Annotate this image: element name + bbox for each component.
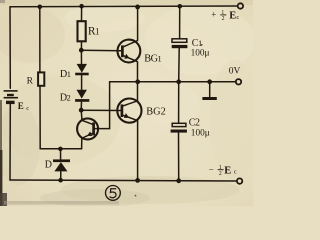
svg-text:E: E <box>229 11 236 22</box>
svg-text:−: − <box>209 164 214 174</box>
wire: 0V line <box>110 81 236 83</box>
svg-text:100μ: 100μ <box>191 129 210 139</box>
svg-text:D: D <box>45 159 52 170</box>
wire: C2 bottom lead <box>178 133 180 181</box>
svg-text:E: E <box>224 165 231 176</box>
svg-text:BG2: BG2 <box>146 106 165 117</box>
label -1/2Ec <box>209 164 237 176</box>
wire: D bottom lead <box>60 171 62 180</box>
transistor BG2 <box>117 99 141 123</box>
svg-text:D2: D2 <box>60 92 71 103</box>
resistor R1 <box>78 21 86 41</box>
battery Ec plates <box>4 91 18 103</box>
svg-text:+: + <box>211 9 216 19</box>
svg-text:c: c <box>236 14 239 21</box>
wire: R1 bottom lead <box>80 41 82 50</box>
figure number 5 (circled) <box>106 186 121 201</box>
wire: C2 top lead <box>178 82 180 124</box>
svg-text:R: R <box>27 77 34 87</box>
wire: D2 bottom lead <box>80 102 82 110</box>
wire: Q3 collector lead <box>80 110 83 120</box>
terminal -1/2Ec <box>237 178 242 183</box>
speck near figure number <box>135 195 137 197</box>
wire: R line from top rail <box>39 7 41 73</box>
wire: left border upper (battery top lead) <box>9 7 11 89</box>
wire: left border lower (battery bottom lead) <box>9 104 11 180</box>
capacitor C1 <box>172 39 188 48</box>
svg-text:2: 2 <box>222 16 225 22</box>
wire: C1 top lead <box>179 6 181 39</box>
wire: ground stub at 0V <box>209 82 211 98</box>
transistor Q3 (unlabelled, mirrored) <box>77 118 98 139</box>
transistor BG1 <box>117 40 140 63</box>
terminal +1/2Ec <box>238 3 243 8</box>
svg-text:0V: 0V <box>229 67 241 77</box>
wire: Q3 emitter lead <box>81 138 83 148</box>
svg-text:c: c <box>26 105 29 112</box>
wire: Q3 base to 0V (right then up) <box>94 82 110 129</box>
capacitor C2 <box>171 123 187 132</box>
svg-text:BG1: BG1 <box>144 53 161 64</box>
wire: BG1 emitter to BG2 collector rail <box>137 62 139 102</box>
scan artifacts: bottom-left corner smudge <box>0 193 7 206</box>
wire: R bottom lead down <box>39 86 41 149</box>
svg-text:100μ: 100μ <box>191 49 210 59</box>
wire: R1 top lead <box>81 6 83 21</box>
label +1/2Ec <box>211 9 239 22</box>
wire: BG1 collector lead to top rail <box>137 7 139 41</box>
wire: D1-D2 link <box>81 75 83 90</box>
wire: D1 top lead <box>80 50 82 64</box>
svg-text:2: 2 <box>219 171 222 177</box>
scan artifacts: left edge dark band <box>0 100 2 206</box>
wire: BG2 base wire <box>81 109 121 111</box>
diode D2 <box>75 90 89 102</box>
svg-text:D1: D1 <box>60 69 71 80</box>
wire: BG2 emitter lead to bottom rail <box>137 120 139 180</box>
wire: D top lead <box>60 149 62 160</box>
svg-text:c: c <box>234 169 237 176</box>
comma after C1 <box>201 44 203 46</box>
scan artifacts: top-left corner mark <box>0 0 5 3</box>
ground bar at 0V stub <box>202 97 216 100</box>
svg-text:C1: C1 <box>192 38 202 49</box>
resistor R <box>38 72 44 85</box>
diode D <box>53 159 70 171</box>
svg-text:R1: R1 <box>88 26 99 38</box>
svg-text:E: E <box>18 101 24 111</box>
terminal 0V <box>236 79 241 84</box>
wire: C1 bottom lead <box>178 48 181 82</box>
wire: bottom horizontal to Q3 emitter <box>40 148 81 150</box>
svg-text:C2: C2 <box>189 118 200 129</box>
scan artifacts: bottom edge streak <box>4 201 119 205</box>
wire: bottom -1/2Ec rail <box>10 180 237 181</box>
diode D1 <box>75 64 89 75</box>
wire: BG1 base wire <box>81 49 121 52</box>
wire: top +1/2Ec rail <box>10 5 238 8</box>
